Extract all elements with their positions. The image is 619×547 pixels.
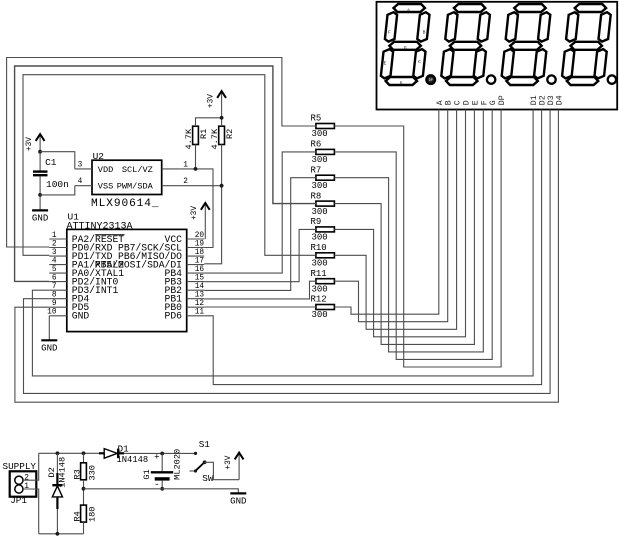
junction G1 bottom — [160, 487, 164, 491]
U1 refdes label — [68, 212, 80, 223]
svg-text:B: B — [445, 100, 454, 105]
wire net SCL: U2 pin1 to U1 pin19 — [179, 169, 213, 248]
svg-text:1N4148: 1N4148 — [117, 455, 149, 465]
svg-text:SCL/VZ: SCL/VZ — [122, 165, 153, 175]
U1 pin 12 PB0 — [165, 300, 205, 313]
svg-text:R2: R2 — [225, 129, 235, 139]
wire segment DP: R5 to display pin — [334, 110, 501, 368]
svg-text:SW: SW — [202, 473, 214, 484]
7-segment digit 2 — [441, 4, 495, 85]
U1 pin 17 PB5/MOSI/SDA/DI — [95, 257, 205, 270]
display segment pin label G — [489, 100, 498, 105]
svg-text:2: 2 — [52, 240, 57, 248]
U1 pin 4 PA1/XTAL2 — [49, 257, 124, 270]
resistor R3 330 — [72, 453, 97, 488]
svg-text:C: C — [418, 59, 421, 65]
svg-text:4: 4 — [52, 257, 57, 265]
wire GND rail — [84, 489, 239, 494]
U1 pin 2 PD0/RXD — [49, 240, 112, 253]
svg-text:300: 300 — [312, 310, 328, 320]
svg-text:300: 300 — [312, 129, 328, 139]
svg-text:1N4148: 1N4148 — [58, 457, 68, 488]
svg-text:20: 20 — [195, 232, 205, 240]
svg-text:15: 15 — [195, 274, 205, 282]
svg-text:DP: DP — [498, 95, 507, 105]
U1 pin 15 PB3 — [165, 274, 205, 287]
svg-text:300: 300 — [312, 284, 328, 294]
wire digit D2: U1 pin11 PD6 to display — [204, 110, 541, 385]
svg-text:S1: S1 — [199, 439, 211, 450]
connector JP1 box — [10, 471, 37, 496]
resistor R6 300 — [311, 140, 335, 166]
U1 pin 9 PD5 — [49, 300, 89, 313]
svg-text:330: 330 — [87, 465, 97, 480]
wire segment F: R7 to display pin — [334, 110, 483, 352]
svg-text:1: 1 — [183, 161, 188, 169]
svg-text:G: G — [489, 100, 498, 105]
U2 pin 4 VSS / pin 2 PWM-SDA row — [75, 178, 188, 191]
svg-text:13: 13 — [195, 292, 205, 300]
JP1 pin 2 circle — [15, 474, 29, 484]
svg-text:+3V: +3V — [207, 94, 215, 108]
svg-text:DP: DP — [429, 78, 433, 82]
wire segment A: R12 to display pin — [334, 110, 438, 315]
display segment pin label E — [471, 100, 480, 105]
resistor R10 300 — [311, 243, 335, 269]
svg-text:A: A — [436, 100, 445, 105]
svg-text:R5: R5 — [311, 114, 322, 124]
ground below U1 pin 10 — [41, 316, 57, 354]
svg-text:U2: U2 — [93, 151, 105, 162]
U1 pin 20 VCC — [165, 232, 205, 245]
resistor R4 180 — [72, 489, 97, 534]
junction R1/R2 +3V node — [220, 116, 224, 120]
JP1 pin 1 circle — [15, 483, 29, 493]
svg-text:C: C — [454, 100, 463, 105]
U1 pin 18 PB6/MISO/DO — [118, 249, 204, 262]
svg-text:4: 4 — [78, 178, 83, 186]
wire segment B: R11 to display pin — [334, 110, 447, 322]
wire JP1 pin2 to top rail — [23, 453, 39, 480]
display box LED1 (4-digit 7-segment display) — [377, 2, 618, 110]
display digit pin label D3 — [547, 95, 556, 105]
+3V arrow at U1 pin 20 (VCC) — [191, 203, 210, 239]
wire segment C: R10 to display pin — [334, 110, 456, 330]
diode D1 1N4148 — [99, 444, 148, 465]
wire R9 to U1 pin15 PB3 — [204, 229, 316, 281]
svg-text:4.7K: 4.7K — [210, 128, 220, 149]
svg-text:R9: R9 — [311, 217, 322, 227]
svg-text:+: + — [154, 453, 159, 463]
svg-text:JP1: JP1 — [10, 495, 27, 506]
svg-text:D: D — [463, 100, 472, 105]
wire D1 to switch S1 — [124, 452, 196, 454]
SUPPLY label — [3, 461, 37, 472]
svg-text:6: 6 — [52, 274, 57, 282]
U1 pin 1 PA2/RESET — [49, 232, 124, 245]
resistor R5 300 — [311, 114, 335, 140]
svg-text:300: 300 — [312, 233, 328, 243]
junction D2 bottom — [56, 532, 60, 536]
wire JP1 pin1 to bottom rail — [23, 489, 39, 534]
wire digit D4: U1 pin9 PD5 to display — [15, 110, 559, 403]
junction R3 top — [82, 451, 86, 455]
wire VSS net: C1 bottom to U2 pin 4 — [40, 186, 75, 195]
wire R8 to U1 pin6 PD2 (around top-left) — [15, 66, 316, 281]
svg-text:+3V: +3V — [26, 137, 34, 151]
svg-text:PD6: PD6 — [165, 311, 183, 322]
svg-text:+3V: +3V — [191, 206, 199, 220]
svg-text:R1: R1 — [199, 129, 209, 139]
U1 pin 19 PB7/SCK/SCL — [118, 240, 204, 253]
svg-text:GND: GND — [32, 213, 48, 224]
junction C1 bottom — [38, 193, 42, 197]
U1 pin 7 PD3/INT1 — [49, 283, 118, 296]
svg-text:18: 18 — [195, 249, 205, 257]
IC U2 MLX90614 box — [92, 160, 162, 194]
7-segment digit 4 — [562, 4, 616, 85]
U1 pin 6 PD2/INT0 — [49, 274, 118, 287]
svg-text:300: 300 — [312, 259, 328, 269]
U1 value label ATTINY2313A — [67, 222, 133, 233]
junction SCL at R1 — [194, 167, 198, 171]
svg-text:VSS: VSS — [98, 182, 113, 192]
U1 pin 11 PD6 — [165, 309, 205, 322]
svg-text:180: 180 — [87, 507, 97, 522]
svg-text:R6: R6 — [311, 140, 322, 150]
JP1 refdes label — [10, 495, 27, 506]
wire segment E: R8 to display pin — [334, 110, 474, 345]
junction R3/R4 node — [82, 487, 86, 491]
resistor R12 300 — [311, 295, 335, 321]
svg-text:300: 300 — [312, 207, 328, 217]
svg-text:R11: R11 — [311, 269, 327, 279]
U1 pin 3 PD1/TXD — [49, 249, 112, 262]
U1 pin 16 PB4 — [165, 266, 205, 279]
svg-text:D: D — [400, 80, 403, 86]
U2 value label MLX90614_ — [91, 198, 160, 210]
svg-text:G: G — [404, 45, 407, 51]
svg-text:12: 12 — [195, 300, 205, 308]
svg-text:B: B — [423, 29, 426, 35]
svg-text:GND: GND — [41, 343, 57, 354]
svg-text:2: 2 — [24, 474, 29, 482]
wire R1 bottom to SCL row — [195, 145, 197, 169]
svg-text:1: 1 — [52, 232, 57, 240]
wire segment D: R9 to display pin — [334, 110, 465, 337]
U1 pin 13 PB1 — [165, 292, 205, 305]
svg-text:F: F — [388, 29, 391, 35]
svg-text:D2: D2 — [47, 467, 57, 477]
switch S1 — [190, 439, 214, 484]
junction SDA at R2 — [220, 184, 224, 188]
U1 pin 8 PD4 — [49, 292, 89, 305]
wire R11 to U1 pin13 PB1 — [204, 281, 316, 299]
svg-text:R3: R3 — [72, 469, 82, 479]
wire VDD net: C1 top to U2 pin 3 — [40, 152, 75, 169]
svg-text:300: 300 — [312, 155, 328, 165]
wire S1 to +3V — [205, 462, 240, 479]
svg-text:G1: G1 — [142, 469, 152, 479]
wire net SDA: U2 pin2 to U1 pin17 — [179, 186, 221, 264]
U2 pin 3 VDD / pin 1 SCL row — [75, 161, 188, 174]
battery G1 ML2020 — [142, 449, 183, 490]
display segment pin label F — [480, 100, 489, 105]
svg-text:R12: R12 — [311, 295, 327, 305]
U1 pin 5 PA0/XTAL1 — [49, 266, 124, 279]
wire R2 top stub — [221, 118, 223, 126]
svg-text:300: 300 — [312, 181, 328, 191]
svg-text:GND: GND — [230, 496, 246, 507]
wire R1 top to +3V node — [196, 118, 222, 126]
resistor R7 300 — [311, 165, 335, 191]
display digit pin label D1 — [530, 95, 539, 105]
svg-text:3: 3 — [52, 249, 57, 257]
svg-text:R8: R8 — [311, 191, 322, 201]
wire digit D3: U1 pin8 PD4 to display — [24, 110, 551, 394]
svg-text:R7: R7 — [311, 165, 322, 175]
display digit pin label D4 — [555, 95, 564, 105]
wire R2 bottom to SDA row — [221, 145, 223, 186]
wire R7 to U1 pin14 PB2 — [204, 178, 316, 291]
svg-text:E: E — [471, 100, 480, 105]
wire R5 to U1 pin2 PD0 (around top-left) — [7, 58, 316, 248]
svg-text:R10: R10 — [311, 243, 327, 253]
wire R6 to U1 pin16 PB4 — [204, 152, 316, 273]
resistor R2 4.7K — [210, 126, 235, 149]
junction C1 top — [38, 150, 42, 154]
svg-text:5: 5 — [52, 266, 57, 274]
svg-text:11: 11 — [195, 309, 205, 317]
ground below C1 — [32, 195, 48, 224]
svg-text:19: 19 — [195, 240, 205, 248]
resistor R9 300 — [311, 217, 335, 243]
display segment pin label DP — [498, 95, 507, 105]
svg-text:2: 2 — [183, 178, 188, 186]
U1 pin 10 GND — [47, 309, 89, 322]
+3V arrow above C1 — [26, 134, 45, 152]
+3V arrow above R1/R2 — [207, 91, 226, 118]
7-segment digit 1 — [381, 4, 435, 86]
svg-text:ML2020: ML2020 — [173, 449, 183, 480]
svg-text:7: 7 — [52, 283, 57, 291]
svg-text:14: 14 — [195, 283, 205, 291]
wire R10 to U1 pin3 PD1 (around top-left) — [23, 75, 316, 256]
svg-text:16: 16 — [195, 266, 205, 274]
capacitor C1 100n — [33, 152, 69, 195]
7-segment digit 3 — [502, 4, 556, 85]
U1 pin 14 PB2 — [165, 283, 205, 296]
svg-text:3: 3 — [78, 161, 83, 169]
IC U1 ATTINY2313A box — [67, 229, 187, 331]
diode D2 1N4148 — [47, 453, 68, 534]
svg-text:17: 17 — [195, 257, 205, 265]
wire R12 to U1 pin12 PB0 — [204, 306, 316, 308]
svg-text:VDD: VDD — [98, 165, 113, 175]
svg-text:SUPPLY: SUPPLY — [3, 461, 37, 472]
svg-text:MLX90614_: MLX90614_ — [91, 198, 160, 210]
wire digit D1: U1 pin7 PD3 to display — [32, 110, 533, 376]
svg-text:ATTINY2313A: ATTINY2313A — [67, 222, 133, 233]
svg-text:GND: GND — [72, 311, 90, 322]
wire segment G: R6 to display pin — [334, 110, 492, 360]
svg-text:1: 1 — [24, 483, 29, 491]
svg-text:E: E — [384, 60, 387, 66]
U2 refdes label — [93, 151, 105, 162]
display segment pin label A — [436, 100, 445, 105]
svg-text:R4: R4 — [72, 511, 82, 521]
display digit pin label D2 — [539, 95, 548, 105]
svg-text:C1: C1 — [45, 157, 57, 168]
svg-text:+3V: +3V — [225, 455, 233, 469]
svg-text:F: F — [480, 100, 489, 105]
display segment pin label C — [454, 100, 463, 105]
wire bottom supply rail — [39, 533, 84, 535]
svg-text:8: 8 — [52, 292, 57, 300]
svg-text:A: A — [407, 7, 410, 13]
display segment pin label D — [463, 100, 472, 105]
svg-text:9: 9 — [52, 300, 57, 308]
svg-text:PWM/SDA: PWM/SDA — [117, 182, 154, 192]
svg-text:4.7K: 4.7K — [184, 128, 194, 149]
wire top supply rail — [39, 452, 99, 454]
resistor R1 4.7K — [184, 126, 209, 149]
svg-text:100n: 100n — [46, 179, 69, 190]
svg-text:D4: D4 — [555, 95, 564, 105]
ground at supply — [230, 493, 246, 506]
junction D2 top — [56, 451, 60, 455]
+3V arrow at switch — [225, 453, 244, 480]
junction G1 top — [160, 452, 164, 456]
svg-text:10: 10 — [47, 309, 57, 317]
resistor R11 300 — [311, 269, 335, 295]
display segment pin label B — [445, 100, 454, 105]
resistor R8 300 — [311, 191, 335, 217]
